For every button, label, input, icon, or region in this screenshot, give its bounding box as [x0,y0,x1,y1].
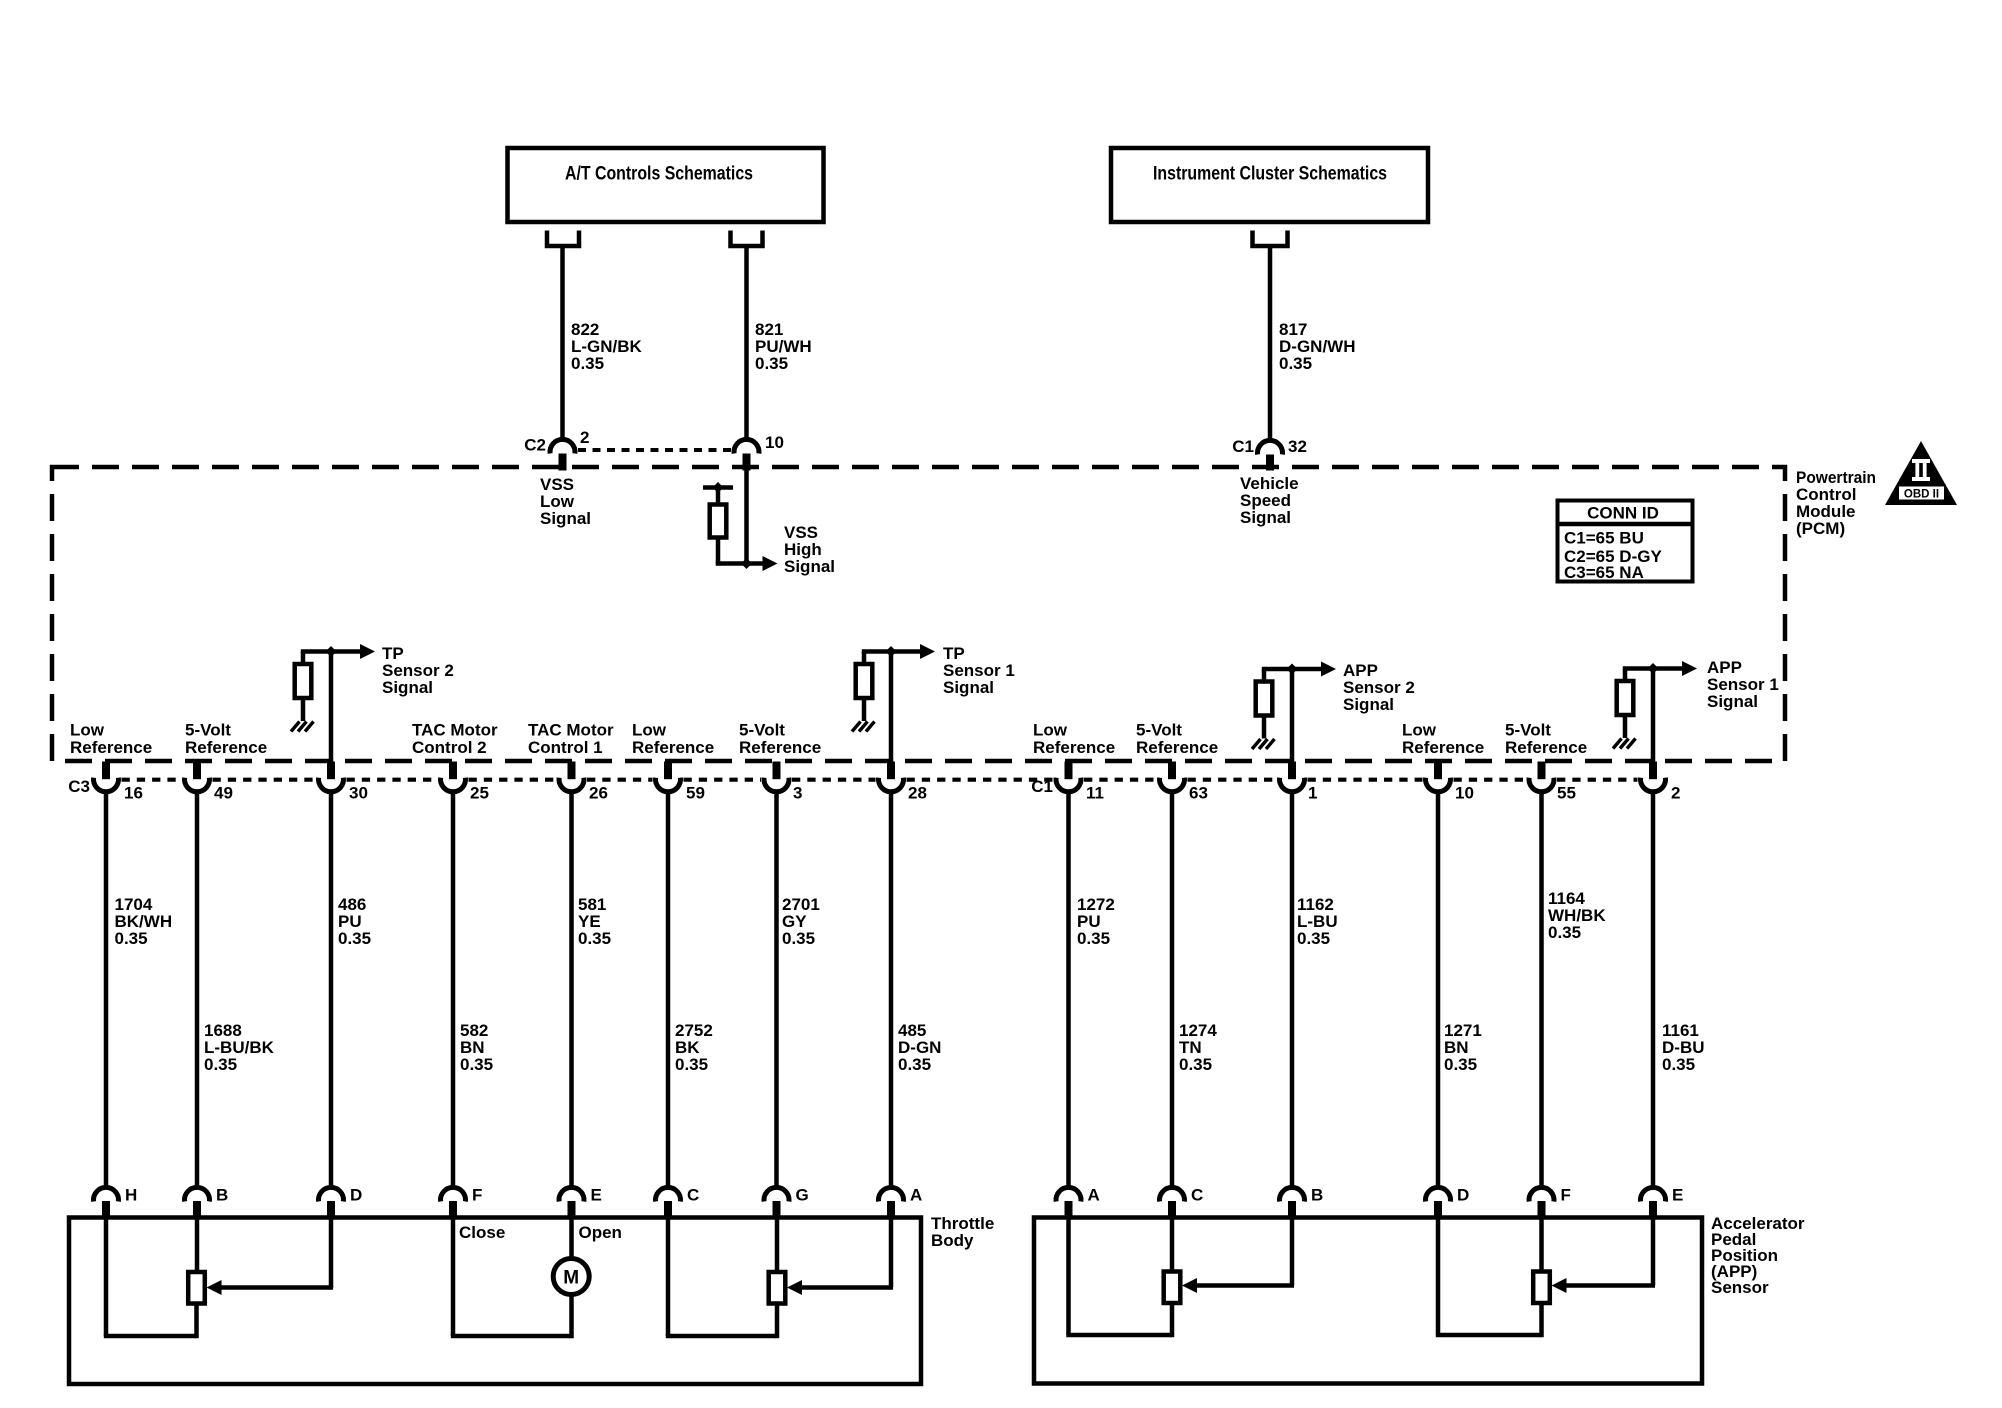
wire: APP pin F to pot2 [1539,1218,1544,1272]
pin C2-10 connector arc [734,439,759,470]
label: pin 3 [793,784,802,803]
svg-text:Body: Body [931,1231,974,1250]
label: device pin E [591,1186,602,1205]
svg-text:TAC Motor: TAC Motor [528,721,614,740]
svg-text:B: B [1311,1186,1323,1205]
wire: resistor to ground APP Sensor 1 Signal [1623,715,1628,738]
label: device pin D [350,1186,362,1205]
device pin F connector [1529,1187,1554,1218]
wire: pin H down [104,1218,109,1336]
label: VSS High Signal [784,523,835,576]
svg-text:C3: C3 [68,777,90,796]
label: device pin B [1311,1186,1323,1205]
device pin C connector [656,1187,681,1218]
device pin B connector [185,1187,210,1218]
horizontal bar TP Sensor 2 Signal [301,649,362,654]
wire: TP Sensor 1 Signal vertical (pin to junction) [889,650,894,762]
wire: APP Sensor 1 Signal vertical (pin to junction) [1651,667,1656,762]
wire: bar down to resistor TP Sensor 2 Signal [301,652,306,665]
ground (TP Sensor 2 Signal) [291,722,314,732]
svg-text:5-Volt: 5-Volt [739,721,785,740]
device pin B connector [1280,1187,1305,1218]
wire: pin A down (wiper feed) [889,1218,894,1288]
label: pin 1 [1308,784,1317,803]
label: APP Sensor 2 Signal [1343,661,1415,714]
label: Throttle Body [931,1214,994,1250]
connector tab under A/T box (right) [731,231,763,247]
wire: pin C down [666,1218,671,1336]
wire: APP pin B down (wiper feed) [1290,1218,1295,1286]
label: device pin G [796,1186,809,1205]
svg-text:D: D [1457,1186,1469,1205]
device pin H connector [94,1187,119,1218]
wire: APP pot1 bottom [1170,1303,1175,1337]
wiper arm wire (E to APP pot2) [1552,1278,1656,1293]
junction dot TP Sensor 2 Signal [326,646,337,657]
svg-text:32: 32 [1288,437,1307,456]
wire: bar down to resistor APP Sensor 1 Signal [1623,669,1628,682]
label: APP Sensor 1 Signal [1707,658,1779,711]
OBD II warning triangle [1885,441,1957,505]
label: pin 10 [765,433,784,452]
motor M (TAC) [553,1259,589,1295]
pin 26 connector (PCM bottom) [559,762,584,792]
svg-text:0.35: 0.35 [1297,929,1330,948]
pin 16 connector (PCM bottom) [94,762,119,792]
svg-text:Sensor: Sensor [1711,1278,1769,1297]
device pin G connector [764,1187,789,1218]
wire: pot1 bottom [194,1304,199,1339]
label: wire 485 D-GN [898,1021,941,1074]
svg-text:C1: C1 [1031,777,1053,796]
svg-text:Reference: Reference [1033,738,1115,757]
dotted connector line C2 (pin2-pin10) [578,448,732,452]
box: Instrument Cluster Schematics [1111,148,1428,222]
svg-text:Signal: Signal [1240,508,1291,527]
pin 55 connector (PCM bottom) [1529,762,1554,792]
label: wire 1161 D-BU [1662,1021,1705,1074]
arrow: TP Sensor 2 Signal [360,644,375,659]
svg-text:Reference: Reference [1402,738,1484,757]
label: C1 (pin32) [1232,437,1254,456]
wire: pot1 bottom link (H to pot) [104,1334,196,1339]
label: device pin H [125,1186,137,1205]
PCM dashed box outline [52,467,1785,761]
svg-text:Control 2: Control 2 [412,738,487,757]
svg-text:0.35: 0.35 [755,354,788,373]
svg-text:26: 26 [589,784,608,803]
wire: APP pin E down (wiper feed) [1651,1218,1656,1286]
resistor (APP Sensor 1 Signal) [1617,681,1634,715]
svg-text:A/T Controls Schematics: A/T Controls Schematics [565,164,753,185]
wire 582 (PCM to device) [451,791,456,1189]
wire: pin 10 to VSS junction [744,469,749,564]
device pin E connector [1641,1187,1666,1218]
wiper arm wire (B to APP pot1) [1182,1278,1294,1293]
label: device pin A [1088,1186,1100,1205]
svg-text:B: B [216,1186,228,1205]
label: Close [459,1223,505,1242]
svg-text:0.35: 0.35 [338,929,371,948]
wire: pin E down (Open) to motor [569,1218,574,1259]
svg-text:F: F [472,1186,482,1205]
label: wire 817 D-GN/WH 0.35 [1279,320,1355,373]
wire 1274 (PCM to device) [1170,791,1175,1189]
svg-text:Control 1: Control 1 [528,738,603,757]
svg-text:28: 28 [908,784,927,803]
label: 5-Volt Reference (x=1505) [1505,721,1587,758]
label: wire 582 BN [460,1021,493,1074]
svg-text:49: 49 [214,784,233,803]
svg-text:Open: Open [579,1223,622,1242]
wire: resistor to ground TP Sensor 2 Signal [301,698,306,721]
svg-text:55: 55 [1557,784,1576,803]
dotted connector line (PCM bottom row) [122,778,1638,782]
svg-text:Reference: Reference [632,738,714,757]
svg-text:0.35: 0.35 [1444,1055,1477,1074]
svg-text:16: 16 [124,784,143,803]
wire: APP pot2 bottom [1539,1303,1544,1337]
resistor (VSS high) [710,505,727,538]
svg-text:0.35: 0.35 [204,1055,237,1074]
label: Powertrain Control Module (PCM) [1796,468,1876,538]
pin 30 connector (PCM bottom) [318,762,343,792]
horizontal bar APP Sensor 1 Signal [1623,666,1684,671]
wire: TP Sensor 2 Signal vertical (pin to junction) [329,650,334,762]
svg-text:C1: C1 [1232,437,1254,456]
label: wire 1704 BK/WH [115,895,173,948]
potentiometer TP sensor 1 (throttle) [769,1272,786,1304]
wire: resistor to ground TP Sensor 1 Signal [862,698,867,721]
svg-text:Reference: Reference [739,738,821,757]
svg-text:0.35: 0.35 [1662,1055,1695,1074]
junction dot on VSS top bar [713,482,724,493]
svg-text:1: 1 [1308,784,1317,803]
svg-text:TAC Motor: TAC Motor [412,721,498,740]
label: C3 [68,777,90,796]
svg-text:10: 10 [1455,784,1474,803]
label: Open [579,1223,622,1242]
wire: pin D down (wiper feed) [329,1218,334,1288]
wire 821 (A/T box to PCM pin C2-10) [744,244,749,439]
wire: APP pot2 bottom link [1436,1333,1542,1338]
svg-text:Low: Low [632,721,667,740]
svg-text:(PCM): (PCM) [1796,519,1845,538]
label: pin 63 [1189,784,1208,803]
label: wire 1274 TN [1179,1021,1217,1074]
wire 2752 (PCM to device) [666,791,671,1189]
svg-text:0.35: 0.35 [1548,923,1581,942]
resistor (TP Sensor 2 Signal) [295,664,312,698]
label: wire 1162 L-BU [1297,895,1338,948]
label: pin 55 [1557,784,1576,803]
wire 485 (PCM to device) [889,791,894,1189]
label: pin 59 [686,784,705,803]
device pin D connector [1425,1187,1450,1218]
svg-text:E: E [1672,1186,1683,1205]
svg-text:3: 3 [793,784,802,803]
svg-text:M: M [563,1268,579,1289]
pin C2-2 connector arc [550,439,575,470]
wire: pin B to pot1 [195,1218,200,1272]
svg-text:0.35: 0.35 [578,929,611,948]
svg-text:25: 25 [470,784,489,803]
box: Accelerator Pedal Position (APP) Sensor [1034,1218,1702,1384]
wire: pin G to pot2 [775,1218,780,1272]
label: pin 11 [1086,784,1104,803]
svg-text:0.35: 0.35 [1179,1055,1212,1074]
label: wire 1271 BN [1444,1021,1482,1074]
CONN ID table [1558,501,1693,583]
label: device pin F [1561,1186,1571,1205]
pin 49 connector (PCM bottom) [185,762,210,792]
wire 1162 (PCM to device) [1290,791,1295,1189]
label: Low Reference (x=70) [70,721,152,758]
wire 1272 (PCM to device) [1066,791,1071,1189]
svg-text:Instrument Cluster Schematics: Instrument Cluster Schematics [1153,164,1387,185]
pin 25 connector (PCM bottom) [441,762,466,792]
label: pin 49 [214,784,233,803]
svg-text:0.35: 0.35 [1279,354,1312,373]
svg-text:H: H [125,1186,137,1205]
pin 10 connector (PCM bottom) [1426,762,1451,792]
wiper arm wire (A to pot2) [787,1280,893,1295]
wire: bar down to resistor TP Sensor 1 Signal [862,652,867,665]
wire: top bar to resistor [716,486,721,505]
svg-text:Close: Close [459,1223,505,1242]
svg-text:0.35: 0.35 [1077,929,1110,948]
VSS pullup top bar [703,485,733,490]
label: VSS Low Signal [540,475,591,528]
label: pin 10 [1455,784,1474,803]
device pin F connector [441,1187,466,1218]
label: device pin B [216,1186,228,1205]
arrow: TP Sensor 1 Signal [920,644,935,659]
label: pin 16 [124,784,143,803]
label: TP Sensor 1 Signal [943,644,1015,697]
svg-text:Low: Low [1033,721,1068,740]
connector tab under A/T box (left) [547,231,579,247]
label: device pin D [1457,1186,1469,1205]
svg-text:F: F [1561,1186,1571,1205]
svg-text:2: 2 [580,428,589,447]
svg-text:CONN ID: CONN ID [1587,504,1659,523]
svg-text:0.35: 0.35 [782,929,815,948]
pin C1-32 connector arc [1258,440,1283,470]
label: 5-Volt Reference (x=1136) [1136,721,1218,758]
wire: pin F down (Close) [451,1218,456,1336]
resistor (TP Sensor 1 Signal) [856,664,873,698]
label: wire 2701 GY [782,895,820,948]
wire: pot2 bottom [775,1304,780,1339]
horizontal bar APP Sensor 2 Signal [1262,667,1323,672]
label: pin 25 [470,784,489,803]
wire: motor bottom link [451,1334,572,1339]
svg-text:Low: Low [1402,721,1437,740]
box: A/T Controls Schematics [508,148,824,222]
svg-text:Signal: Signal [943,678,994,697]
svg-text:63: 63 [1189,784,1208,803]
label: wire 1164 WH/BK [1548,889,1606,942]
svg-text:30: 30 [349,784,368,803]
svg-text:Reference: Reference [1136,738,1218,757]
wire: APP pin D down [1436,1218,1441,1335]
svg-text:C1=65 BU: C1=65 BU [1564,529,1644,548]
pin 63 connector (PCM bottom) [1160,762,1185,792]
label: wire 2752 BK [675,1021,713,1074]
device pin A connector [879,1187,904,1218]
svg-text:C: C [687,1186,699,1205]
svg-text:2: 2 [1671,784,1680,803]
wire 1161 (PCM to device) [1651,791,1656,1189]
label: wire 581 YE [578,895,611,948]
label: device pin F [472,1186,482,1205]
label: TAC Motor Control 2 (x=412) [412,721,498,758]
wire: motor to bottom link [569,1295,574,1339]
box: Throttle Body [69,1218,921,1385]
label: pin 2 [1671,784,1680,803]
pin 2 connector (PCM bottom) [1641,762,1666,792]
potentiometer TP sensor 2 (throttle) [188,1272,205,1304]
svg-text:A: A [910,1186,922,1205]
svg-text:Reference: Reference [1505,738,1587,757]
label: device pin E [1672,1186,1683,1205]
wire 817 (Instrument Cluster to PCM pin C1-32) [1268,244,1273,440]
label: pin 30 [349,784,368,803]
wire: pot2 bottom link (C to pot) [666,1334,777,1339]
label: pin 2 [580,428,589,447]
svg-text:E: E [591,1186,602,1205]
device pin D connector [319,1187,344,1218]
svg-text:0.35: 0.35 [571,354,604,373]
resistor (APP Sensor 2 Signal) [1256,682,1273,716]
wire: bar down to resistor APP Sensor 2 Signal [1262,669,1267,682]
label: Low Reference (x=632) [632,721,714,758]
arrow: APP Sensor 2 Signal [1321,662,1336,677]
wiper arm wire (D to pot1) [207,1280,334,1295]
label: wire 821 PU/WH 0.35 [755,320,812,373]
arrow: VSS High Signal [747,556,778,571]
ground (TP Sensor 1 Signal) [852,722,875,732]
label: wire 486 PU [338,895,371,948]
svg-text:10: 10 [765,433,784,452]
label: wire 822 L-GN/BK 0.35 [571,320,643,373]
svg-text:59: 59 [686,784,705,803]
junction dot VSS high [741,558,752,569]
label: pin 28 [908,784,927,803]
svg-text:5-Volt: 5-Volt [1505,721,1551,740]
label: C1 (bottom row) [1031,777,1053,796]
svg-text:A: A [1088,1186,1100,1205]
svg-text:G: G [796,1186,809,1205]
svg-text:0.35: 0.35 [898,1055,931,1074]
label: device pin A [910,1186,922,1205]
svg-text:Signal: Signal [1343,695,1394,714]
label: APP Sensor [1711,1214,1805,1297]
wire 486 (PCM to device) [329,791,334,1189]
svg-text:11: 11 [1086,784,1104,803]
label: pin 32 [1288,437,1307,456]
device pin C connector [1159,1187,1184,1218]
svg-text:Reference: Reference [185,738,267,757]
svg-text:5-Volt: 5-Volt [1136,721,1182,740]
svg-text:0.35: 0.35 [115,929,148,948]
label: 5-Volt Reference (x=739) [739,721,821,758]
svg-text:5-Volt: 5-Volt [185,721,231,740]
junction dot APP Sensor 1 Signal [1648,663,1659,674]
label: device pin C [687,1186,699,1205]
wire 1688 (PCM to device) [195,791,200,1189]
device pin E connector [559,1187,584,1218]
svg-text:C3=65 NA: C3=65 NA [1564,563,1644,582]
label: Low Reference (x=1402) [1402,721,1484,758]
label: wire 1272 PU [1077,895,1115,948]
connector tab under Instrument Cluster box [1253,231,1288,247]
horizontal bar TP Sensor 1 Signal [862,649,922,654]
svg-text:Signal: Signal [540,509,591,528]
svg-text:Signal: Signal [1707,692,1758,711]
svg-text:D: D [350,1186,362,1205]
wire 1271 (PCM to device) [1436,791,1441,1189]
pin 11 connector (PCM bottom) [1056,762,1081,792]
svg-text:0.35: 0.35 [675,1055,708,1074]
device pin A connector [1056,1187,1081,1218]
svg-text:Signal: Signal [382,678,433,697]
label: C2 [524,436,546,455]
label: 5-Volt Reference (x=185) [185,721,267,758]
pin 28 connector (PCM bottom) [879,762,904,792]
wire: APP Sensor 2 Signal vertical (pin to junction) [1290,668,1295,763]
wire: APP pin C to pot1 [1170,1218,1175,1272]
label: TP Sensor 2 Signal [382,644,454,697]
wire 1704 (PCM to device) [104,791,109,1189]
svg-text:0.35: 0.35 [460,1055,493,1074]
svg-text:Reference: Reference [70,738,152,757]
svg-text:Signal: Signal [784,557,835,576]
wire: resistor to bottom elbow [716,538,747,564]
label: Low Reference (x=1033) [1033,721,1115,758]
wire 2701 (PCM to device) [774,791,779,1189]
ground (APP Sensor 1 Signal) [1613,739,1636,749]
svg-text:C: C [1191,1186,1203,1205]
pin 3 connector (PCM bottom) [764,762,789,792]
svg-text:Low: Low [70,721,105,740]
wire 581 (PCM to device) [569,791,574,1189]
svg-text:OBD II: OBD II [1904,489,1939,501]
label: Vehicle Speed Signal [1240,474,1299,527]
wire: APP pin A down [1066,1218,1071,1335]
label: pin 26 [589,784,608,803]
potentiometer APP sensor 1 [1533,1272,1550,1304]
ground (APP Sensor 2 Signal) [1252,739,1275,749]
junction dot TP Sensor 1 Signal [886,646,897,657]
label: wire 1688 L-BU/BK [204,1021,275,1074]
arrow: APP Sensor 1 Signal [1682,661,1697,676]
pin 59 connector (PCM bottom) [656,762,681,792]
label: device pin C [1191,1186,1203,1205]
junction dot APP Sensor 2 Signal [1287,664,1298,675]
pin 1 connector (PCM bottom) [1280,762,1305,792]
wire 1164 (PCM to device) [1539,791,1544,1189]
svg-text:C2: C2 [524,436,546,455]
potentiometer APP sensor 2 [1164,1272,1181,1304]
wire: APP pot1 bottom link [1066,1333,1172,1338]
wire 822 (A/T box to PCM pin C2-2) [560,244,565,438]
wire: resistor to ground APP Sensor 2 Signal [1262,716,1267,739]
label: TAC Motor Control 1 (x=528) [528,721,614,758]
